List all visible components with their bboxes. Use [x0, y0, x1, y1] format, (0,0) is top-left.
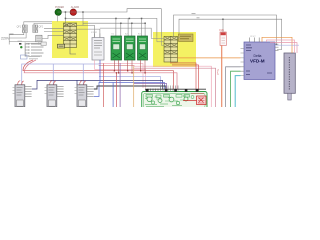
wire drop to relay1 pin2	[120, 23, 122, 36]
wire lavender drop box3	[82, 64, 84, 85]
box3 right pins	[87, 87, 94, 97]
breaker QF2	[33, 25, 38, 33]
solid state relay K1	[111, 36, 122, 60]
wire fuse top feed	[222, 19, 224, 32]
wire drop to relay2 pin1	[127, 18, 129, 36]
wire staple S1	[174, 15, 277, 45]
inverter U1 Delta VFD-M	[244, 42, 275, 80]
box1 right pins	[25, 87, 32, 97]
wire navy bus	[32, 80, 163, 89]
wire pink brake link 1	[267, 40, 295, 53]
control station box 2	[47, 85, 57, 107]
transformer T1	[164, 37, 178, 63]
breaker QF1	[22, 25, 27, 33]
wire 220V phase to QF1	[9, 33, 24, 35]
wire red short b	[99, 65, 134, 68]
wire red drop left to bottom	[102, 63, 104, 107]
wire green to inverter	[231, 71, 241, 107]
board top pin group 1	[146, 89, 159, 92]
wire relay K1 bottom drops	[113, 60, 115, 71]
fuse FU1	[220, 30, 227, 46]
solid state relay K2	[125, 36, 136, 60]
wire 220V vertical bus	[8, 34, 10, 45]
wire contactor out 2	[77, 29, 100, 37]
wire purple to board	[134, 83, 167, 89]
contactor KM1	[64, 23, 77, 48]
wire drop to relay1 pin1	[115, 18, 117, 36]
wire bus H3 to transformer	[100, 28, 151, 36]
wire contactor coil drop	[65, 12, 67, 23]
label 220V bus	[10, 33, 14, 35]
box3 red entry curls	[80, 81, 86, 85]
indicator lamp ALARM	[70, 6, 79, 15]
wire top bus H2	[83, 22, 145, 24]
wire navy drop box3	[76, 80, 78, 85]
wire orange control	[178, 57, 241, 59]
wire purple drop	[119, 63, 121, 107]
svg-text:VFD-M: VFD-M	[250, 59, 265, 64]
box3 left pins	[75, 88, 78, 94]
wire lavender off-edge	[275, 44, 299, 46]
wire filter stub down	[38, 42, 40, 45]
legend arrows block	[18, 41, 44, 57]
wire pink mid	[95, 69, 146, 88]
wire relay ST1 pin drops	[95, 33, 100, 37]
wire 220V neutral to QF2	[9, 33, 26, 38]
inverter right pins	[275, 44, 279, 50]
junction dots top buses	[65, 11, 146, 24]
wire tan vertical	[133, 66, 135, 107]
label bus L2	[197, 17, 200, 19]
yellow highlight zone 2 (transformer area)	[153, 32, 196, 67]
wire red bus 2	[24, 60, 177, 89]
filter block under QF2	[36, 35, 42, 42]
wire QF2 top to contactor	[34, 23, 52, 25]
control station box 3	[77, 85, 87, 107]
wire breakers to contactor pin a	[44, 27, 64, 29]
wire red bus 1	[23, 60, 174, 89]
wire pink pair b	[134, 68, 216, 107]
wire yellow2 internal jogs	[151, 39, 164, 46]
svg-text:R S T: R S T	[251, 36, 257, 38]
brake resistor BR	[284, 53, 295, 100]
relay board PCB	[142, 92, 207, 110]
box2 left pins	[45, 88, 48, 94]
inverter top pins R S T	[249, 38, 259, 43]
wire drop to relay2 pin2	[131, 23, 133, 36]
wire lavender right	[99, 77, 161, 89]
legend small labels mid-left	[21, 55, 41, 59]
wire pink brake link 2	[270, 43, 297, 53]
wire lamp bus y12	[58, 9, 162, 37]
svg-text:ALARM: ALARM	[71, 6, 79, 9]
wire relay K3 bottom drops	[140, 60, 142, 71]
indicator lamp POWER	[55, 6, 64, 15]
wire drop to relay3 pin2	[144, 23, 146, 36]
wire red drop to bottom	[115, 73, 117, 107]
wire contactor lower stub	[70, 48, 76, 55]
wire blue branch	[94, 86, 166, 89]
wire top bus H1	[66, 18, 157, 36]
wire cyan to inverter	[235, 76, 240, 107]
wire pink short a	[99, 63, 143, 88]
source 220V label	[1, 37, 10, 41]
wire breakers to contactor pin b	[44, 31, 64, 33]
wire pink pair a	[134, 66, 211, 107]
svg-text:POWER: POWER	[55, 6, 64, 9]
wire 220V ground branch	[9, 41, 36, 43]
terminal box TB	[41, 42, 46, 45]
transformer label box	[179, 34, 194, 42]
wire orange brake link	[262, 37, 292, 53]
wire fuse drop red	[221, 46, 223, 108]
wire red verticals into board	[170, 63, 199, 96]
inverter left pins	[241, 49, 245, 76]
wire lamp line drop x83	[82, 12, 84, 25]
wire blue drop to bottom	[112, 83, 114, 108]
junction dot staple end	[276, 44, 278, 46]
contactor auxiliary label box	[58, 44, 65, 48]
wire POWER lamp stub	[57, 15, 59, 22]
svg-text:QF2: QF2	[39, 26, 44, 28]
wire drop to relay3 pin1	[141, 18, 143, 36]
wire staple S2	[179, 19, 282, 49]
control station box 1	[15, 85, 25, 107]
junction dot fuse feed	[222, 19, 224, 21]
wire lavender drop box2	[52, 64, 54, 85]
time relay ST1	[91, 32, 104, 60]
yellow highlight zone 1 (contactor area)	[52, 21, 88, 58]
junction dots wire bundle	[114, 70, 146, 73]
box2 right pins	[57, 87, 64, 97]
box2 red entry curls	[50, 81, 56, 85]
wire contactor out 1	[77, 25, 95, 37]
wire lavender bus	[22, 64, 99, 85]
wire QF1 top to contactor	[24, 22, 52, 25]
wire blue bus	[94, 83, 165, 97]
board top pin group 2	[161, 86, 179, 92]
wire relay K2 bottom drops	[127, 60, 129, 71]
wire gray to inverter	[226, 67, 241, 107]
label bus L1	[192, 13, 196, 15]
svg-text:к РТЦ: к РТЦ	[218, 69, 220, 75]
svg-text:220V: 220V	[1, 37, 10, 41]
wire filter to contactor	[42, 35, 64, 38]
box1 left pins	[13, 88, 16, 94]
svg-text:Delta: Delta	[254, 54, 262, 58]
wire ST1 bottom drops	[94, 60, 96, 69]
solid state relay K3	[138, 36, 148, 60]
board top terminal bumps	[146, 89, 198, 92]
box1 red entry curls	[18, 81, 24, 85]
wire board top rail	[145, 88, 206, 90]
svg-text:QF1: QF1	[17, 26, 22, 28]
svg-text:FU1: FU1	[220, 30, 225, 32]
